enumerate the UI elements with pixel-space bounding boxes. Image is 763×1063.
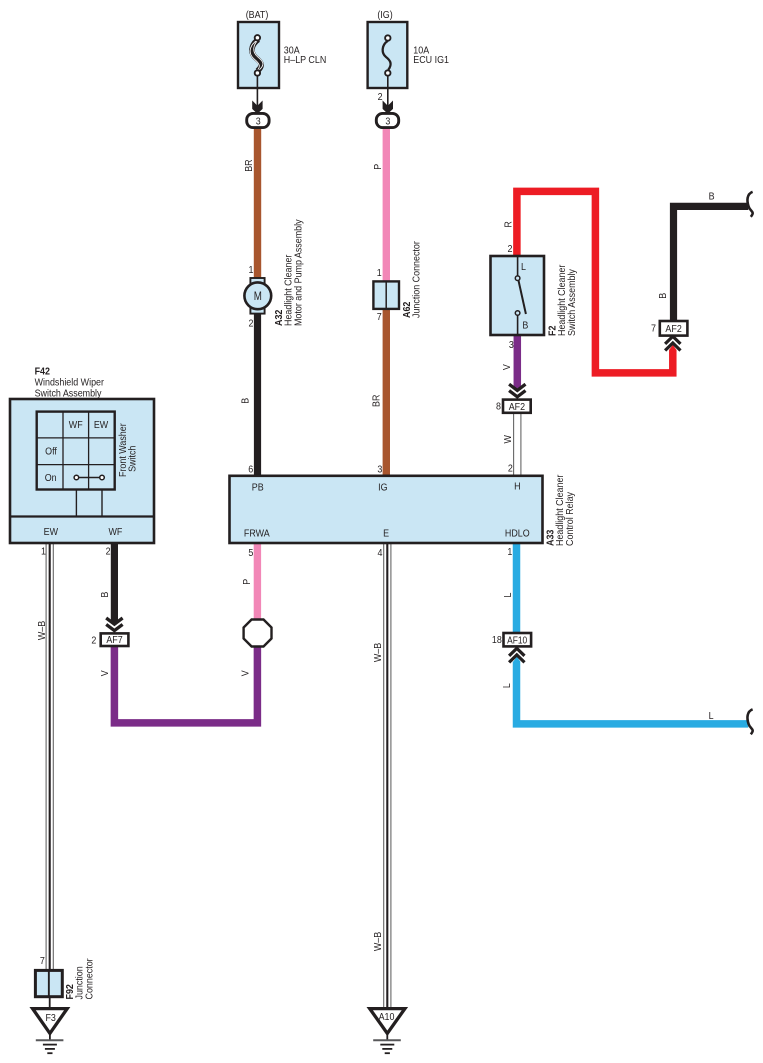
svg-text:A32Headlight CleanerMotor and: A32Headlight CleanerMotor and Pump Assem… bbox=[273, 219, 304, 326]
svg-text:2: 2 bbox=[106, 546, 111, 558]
connector AF2-8 bbox=[503, 400, 531, 413]
wire B F42 WF to AF7 bbox=[111, 543, 118, 621]
svg-text:7: 7 bbox=[40, 955, 45, 967]
F42 inner table bbox=[37, 412, 115, 490]
wire break curl B bbox=[747, 192, 752, 217]
fuse (IG) 10A ECU IG1 bbox=[368, 22, 408, 113]
svg-text:L: L bbox=[709, 710, 714, 722]
wire V F2 to AF2-8 bbox=[514, 335, 522, 387]
chevron arrow into AF2-7 bbox=[665, 336, 680, 350]
wire F92 to ground F3 bbox=[49, 997, 51, 1009]
svg-text:W: W bbox=[502, 434, 514, 443]
svg-text:AF2: AF2 bbox=[509, 401, 525, 413]
svg-text:B: B bbox=[99, 592, 111, 598]
wire R F2 switch to AF2 bbox=[517, 191, 673, 373]
svg-text:3: 3 bbox=[377, 464, 382, 476]
wire BR fuse1 to motor bbox=[254, 129, 261, 280]
svg-text:2: 2 bbox=[91, 635, 96, 647]
svg-text:WF: WF bbox=[108, 526, 122, 538]
svg-text:7: 7 bbox=[651, 323, 656, 335]
svg-text:L: L bbox=[521, 261, 526, 273]
svg-text:F42Windshield WiperSwitch Asse: F42Windshield WiperSwitch Assembly bbox=[35, 366, 105, 400]
svg-text:IG: IG bbox=[378, 482, 387, 494]
switch F2 bbox=[491, 256, 545, 335]
motor A32 bbox=[244, 278, 271, 314]
svg-text:P: P bbox=[373, 164, 385, 170]
connector AF7 bbox=[101, 633, 129, 646]
switch assembly F42 box bbox=[10, 399, 154, 543]
chevron arrow into AF2-8 bbox=[509, 384, 525, 397]
svg-text:EW: EW bbox=[44, 526, 59, 538]
svg-text:2: 2 bbox=[378, 91, 383, 103]
svg-text:10AECU IG1: 10AECU IG1 bbox=[413, 45, 449, 66]
svg-text:B: B bbox=[522, 320, 528, 332]
svg-text:A33Headlight CleanerControl Re: A33Headlight CleanerControl Relay bbox=[545, 474, 576, 546]
svg-text:BR: BR bbox=[371, 395, 383, 407]
wire W-B F42 EW down to F92 bbox=[46, 543, 53, 970]
svg-text:F92JunctionConnector: F92JunctionConnector bbox=[64, 958, 95, 1000]
svg-text:F3: F3 bbox=[45, 1012, 55, 1024]
svg-text:AF7: AF7 bbox=[106, 634, 122, 646]
svg-text:W–B: W–B bbox=[372, 932, 384, 951]
svg-text:W–B: W–B bbox=[36, 621, 48, 640]
svg-text:B: B bbox=[709, 191, 715, 203]
chevron arrow into AF7 bbox=[106, 618, 122, 631]
svg-text:R: R bbox=[503, 221, 515, 227]
F42 drop lines bbox=[75, 490, 77, 517]
junction connector F92 bbox=[35, 970, 62, 996]
wire B motor to relay PB bbox=[254, 312, 261, 476]
wire BR A62 to relay IG bbox=[383, 308, 390, 476]
svg-text:BR: BR bbox=[243, 159, 255, 171]
svg-text:AF10: AF10 bbox=[507, 634, 527, 646]
svg-text:F2Headlight CleanerSwitch Asse: F2Headlight CleanerSwitch Assembly bbox=[547, 264, 578, 336]
wire W AF2-8 to relay H bbox=[514, 413, 521, 476]
fuse (BAT) 30A H-LP CLN bbox=[238, 22, 279, 113]
svg-text:2: 2 bbox=[508, 243, 513, 255]
wire break curl L bbox=[747, 709, 752, 734]
svg-text:V: V bbox=[240, 670, 252, 676]
svg-text:L: L bbox=[503, 592, 515, 597]
svg-text:WF: WF bbox=[69, 419, 83, 431]
svg-text:8: 8 bbox=[496, 401, 501, 413]
svg-text:A10: A10 bbox=[379, 1011, 395, 1023]
svg-text:W–B: W–B bbox=[372, 643, 384, 662]
svg-text:AF2: AF2 bbox=[665, 324, 681, 336]
svg-text:E: E bbox=[383, 528, 389, 540]
svg-text:1: 1 bbox=[507, 546, 512, 558]
arrow below fuse1 bbox=[252, 101, 262, 114]
F42 separator bbox=[10, 515, 154, 517]
svg-text:(BAT): (BAT) bbox=[246, 9, 269, 21]
chevron arrow into AF10 bbox=[513, 657, 520, 662]
svg-text:30AH–LP CLN: 30AH–LP CLN bbox=[284, 45, 326, 66]
svg-text:1: 1 bbox=[249, 264, 254, 276]
svg-text:V: V bbox=[99, 670, 111, 676]
svg-text:3: 3 bbox=[385, 116, 390, 128]
svg-text:4: 4 bbox=[378, 547, 383, 559]
wire W-B relay E to ground A10 bbox=[384, 543, 391, 1009]
connector AF2-7 bbox=[660, 321, 688, 336]
svg-text:L: L bbox=[501, 683, 513, 688]
ground symbol A10 bbox=[373, 1033, 401, 1053]
svg-text:On: On bbox=[45, 472, 57, 484]
svg-text:H: H bbox=[514, 481, 520, 493]
arrow below fuse2 bbox=[383, 101, 393, 114]
svg-text:2: 2 bbox=[508, 463, 513, 475]
connector oval 3 fuse1 bbox=[247, 113, 269, 127]
svg-text:B: B bbox=[657, 293, 669, 299]
svg-text:7: 7 bbox=[377, 311, 382, 323]
octagon joint bbox=[244, 620, 272, 647]
svg-text:18: 18 bbox=[492, 635, 502, 647]
svg-text:M: M bbox=[254, 290, 262, 303]
wire L relay HDLO to AF10 bbox=[513, 543, 521, 633]
connector AF10 bbox=[504, 633, 532, 646]
svg-text:1: 1 bbox=[377, 267, 382, 279]
ground triangle F3 bbox=[33, 1009, 68, 1034]
svg-text:Off: Off bbox=[45, 446, 57, 458]
wire B AF2 to right break bbox=[674, 206, 749, 321]
svg-text:V: V bbox=[501, 364, 513, 370]
svg-text:P: P bbox=[241, 579, 253, 585]
svg-text:(IG): (IG) bbox=[377, 9, 392, 21]
connector oval 3 fuse2 bbox=[376, 113, 398, 127]
svg-text:3: 3 bbox=[509, 339, 514, 351]
wire V AF7 to octagon bbox=[114, 646, 257, 723]
svg-text:3: 3 bbox=[256, 116, 261, 128]
ground triangle A10 bbox=[370, 1009, 405, 1034]
svg-text:6: 6 bbox=[248, 464, 253, 476]
svg-text:A62Junction Connector: A62Junction Connector bbox=[401, 240, 422, 318]
svg-text:EW: EW bbox=[94, 419, 109, 431]
svg-text:FRWA: FRWA bbox=[244, 528, 270, 540]
wire P relay FRWA to octagon bbox=[254, 543, 261, 620]
svg-text:HDLO: HDLO bbox=[505, 528, 530, 540]
ground symbol F3 bbox=[36, 1033, 64, 1053]
svg-text:5: 5 bbox=[248, 547, 253, 559]
svg-text:B: B bbox=[240, 398, 252, 404]
svg-text:1: 1 bbox=[41, 546, 46, 558]
wire L AF10 to right break bbox=[517, 662, 749, 724]
junction connector A62 bbox=[373, 281, 399, 309]
svg-text:PB: PB bbox=[252, 482, 264, 494]
relay box A33 bbox=[230, 476, 543, 543]
F42 contact line bbox=[74, 475, 104, 480]
svg-text:2: 2 bbox=[249, 318, 254, 330]
wire P fuse2 to A62 bbox=[383, 129, 390, 283]
